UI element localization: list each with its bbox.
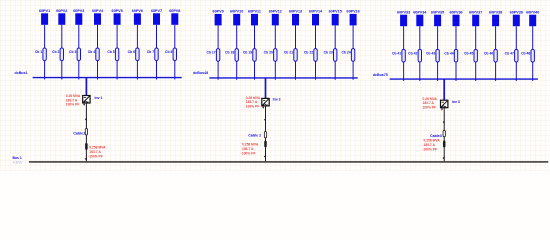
svg-text:60PV8: 60PV8 xyxy=(169,9,180,13)
svg-text:Inv 2: Inv 2 xyxy=(273,97,281,101)
svg-text:Cb 41: Cb 41 xyxy=(392,52,401,56)
svg-text:0.8 kV: 0.8 kV xyxy=(13,161,23,165)
svg-text:-100% PF: -100% PF xyxy=(422,148,437,152)
svg-text:Cb 20: Cb 20 xyxy=(264,51,273,55)
svg-text:60PV36: 60PV36 xyxy=(449,10,462,14)
svg-text:Cb 45: Cb 45 xyxy=(464,52,473,56)
svg-text:100% PF: 100% PF xyxy=(66,103,80,107)
svg-text:Inv 3: Inv 3 xyxy=(452,100,460,104)
svg-text:60PV40: 60PV40 xyxy=(526,10,539,14)
svg-text:60PV39: 60PV39 xyxy=(510,10,523,14)
svg-text:Cb 18: Cb 18 xyxy=(225,51,234,55)
svg-text:Cb 43: Cb 43 xyxy=(426,52,435,56)
svg-text:60PV14: 60PV14 xyxy=(309,10,323,14)
svg-text:Cb 8: Cb 8 xyxy=(165,50,172,54)
svg-text:Cb 22: Cb 22 xyxy=(304,51,313,55)
svg-text:60PV3: 60PV3 xyxy=(73,9,84,13)
svg-text:Cb 17: Cb 17 xyxy=(206,51,215,55)
svg-text:60PV35: 60PV35 xyxy=(431,10,444,14)
svg-text:Cb 47: Cb 47 xyxy=(505,52,514,56)
svg-text:dcBus48: dcBus48 xyxy=(193,71,208,75)
svg-text:Cb 42: Cb 42 xyxy=(408,52,417,56)
svg-text:60PV15: 60PV15 xyxy=(329,10,342,14)
svg-text:Cb 24: Cb 24 xyxy=(341,51,350,55)
svg-text:60PV5: 60PV5 xyxy=(112,9,123,13)
svg-text:60PV4: 60PV4 xyxy=(92,9,104,13)
svg-text:Cb 44: Cb 44 xyxy=(444,52,453,56)
svg-text:100% PF: 100% PF xyxy=(246,104,260,108)
svg-text:60PV10: 60PV10 xyxy=(230,10,243,14)
svg-text:Inv 1: Inv 1 xyxy=(95,96,103,100)
svg-text:Cb 48: Cb 48 xyxy=(521,52,530,56)
svg-text:60PV11: 60PV11 xyxy=(248,10,261,14)
svg-text:60PV33: 60PV33 xyxy=(397,10,410,14)
svg-text:60PV1: 60PV1 xyxy=(39,9,50,13)
svg-text:0.258 MVA: 0.258 MVA xyxy=(89,145,106,149)
svg-text:Cb 46: Cb 46 xyxy=(484,52,493,56)
svg-text:-100% PF: -100% PF xyxy=(241,152,256,156)
svg-text:60PV37: 60PV37 xyxy=(469,10,482,14)
svg-text:183.7 A: 183.7 A xyxy=(89,150,101,154)
svg-text:60PV6: 60PV6 xyxy=(132,9,143,13)
svg-text:183.7 A: 183.7 A xyxy=(242,147,254,151)
svg-text:Cb 3: Cb 3 xyxy=(69,50,76,54)
svg-text:dcBus75: dcBus75 xyxy=(373,73,388,77)
svg-text:60PV9: 60PV9 xyxy=(213,10,224,14)
svg-text:Cb 21: Cb 21 xyxy=(284,51,293,55)
svg-text:60PV12: 60PV12 xyxy=(269,10,282,14)
svg-text:100% PF: 100% PF xyxy=(423,105,437,109)
svg-text:60PV7: 60PV7 xyxy=(151,9,162,13)
svg-text:Cb 1: Cb 1 xyxy=(35,50,42,54)
svg-text:60PV16: 60PV16 xyxy=(347,10,360,14)
svg-text:0.258 MVA: 0.258 MVA xyxy=(424,139,441,143)
svg-text:Cb 23: Cb 23 xyxy=(324,51,333,55)
svg-text:-100% PF: -100% PF xyxy=(88,155,103,159)
svg-text:Cb 7: Cb 7 xyxy=(147,50,154,54)
svg-text:Cb 4: Cb 4 xyxy=(88,50,95,54)
svg-text:Cable1: Cable1 xyxy=(73,132,85,136)
svg-text:Cb 2: Cb 2 xyxy=(52,50,59,54)
svg-text:0.258 MVA: 0.258 MVA xyxy=(242,143,259,147)
svg-text:Bus 1: Bus 1 xyxy=(13,156,22,160)
svg-text:Cb 5: Cb 5 xyxy=(107,50,114,54)
svg-text:183.7 A: 183.7 A xyxy=(424,143,436,147)
svg-text:Cb 19: Cb 19 xyxy=(243,51,252,55)
svg-text:Cable 2: Cable 2 xyxy=(248,133,261,137)
svg-text:60PV13: 60PV13 xyxy=(289,10,302,14)
svg-text:60PV2: 60PV2 xyxy=(56,9,67,13)
svg-text:Cable3: Cable3 xyxy=(430,134,442,138)
svg-text:dcBus1: dcBus1 xyxy=(15,71,28,75)
svg-text:60PV38: 60PV38 xyxy=(489,10,502,14)
svg-text:Cb 6: Cb 6 xyxy=(128,50,135,54)
svg-text:60PV34: 60PV34 xyxy=(413,10,427,14)
